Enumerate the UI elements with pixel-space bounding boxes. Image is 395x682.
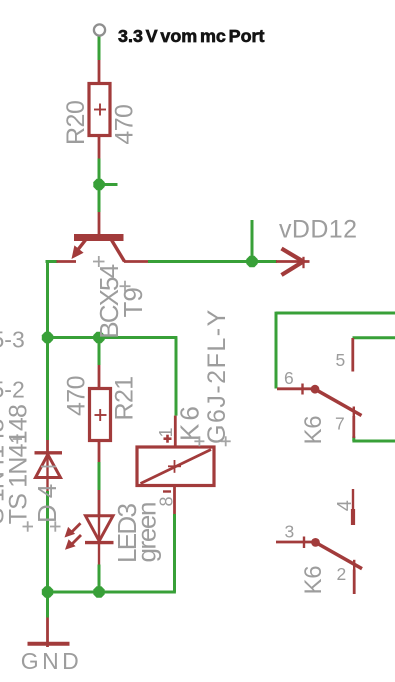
svg-text:4: 4 — [334, 500, 356, 511]
svg-text:3: 3 — [285, 521, 295, 541]
svg-text:2: 2 — [337, 564, 347, 584]
svg-text:GND: GND — [21, 648, 82, 674]
svg-text:K6: K6 — [300, 416, 327, 445]
svg-text:T9: T9 — [118, 287, 148, 317]
svg-text:470: 470 — [111, 105, 139, 145]
svg-text:vDD12: vDD12 — [279, 215, 357, 243]
svg-text:1: 1 — [156, 427, 176, 437]
svg-text:green: green — [132, 503, 162, 563]
svg-text:R20: R20 — [62, 101, 90, 145]
svg-text:6: 6 — [284, 368, 294, 388]
svg-text:3.3 V vom mc Port: 3.3 V vom mc Port — [118, 26, 265, 46]
svg-text:5-2: 5-2 — [0, 377, 25, 403]
svg-text:8: 8 — [157, 496, 177, 506]
svg-text:5-3: 5-3 — [0, 327, 25, 353]
svg-text:K6: K6 — [300, 566, 327, 595]
svg-text:470: 470 — [63, 376, 91, 416]
svg-text:D4: D4 — [32, 478, 62, 523]
svg-text:G6J-2FL-Y: G6J-2FL-Y — [203, 308, 231, 444]
svg-text:R21: R21 — [111, 376, 139, 420]
svg-text:5: 5 — [336, 350, 346, 370]
svg-text:K6: K6 — [175, 403, 205, 441]
svg-text:S 1N4148: S 1N4148 — [0, 419, 10, 524]
svg-text:7: 7 — [335, 414, 345, 434]
